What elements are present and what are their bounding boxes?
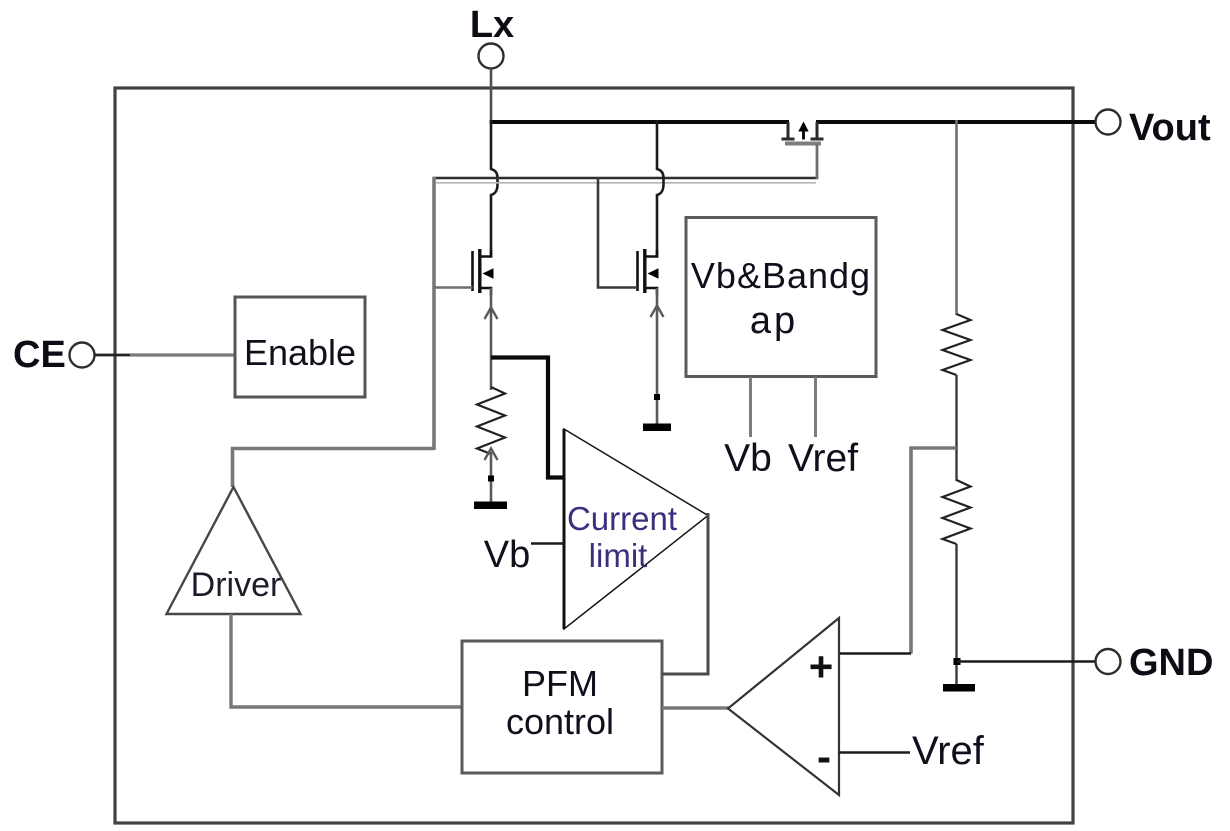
wire divider bottom lead: [955, 544, 957, 684]
block Enable: [235, 297, 365, 397]
wire comparator U2 minus input: [839, 751, 910, 753]
svg-text:ap: ap: [750, 300, 798, 342]
wire Lx pin to Vout rail: [490, 69, 493, 124]
block PFM control: [462, 641, 662, 773]
transistor M2 source stub: [645, 288, 657, 295]
junction dot at GND node: [954, 658, 961, 665]
arrow current direction on M2 source: [651, 306, 664, 318]
transistor M1 channel bar: [478, 249, 481, 293]
wire M1 gate connection: [434, 286, 473, 289]
pin Lx terminal circle: [479, 44, 504, 69]
transistor M2 drain stub: [645, 250, 657, 257]
wire gate drive horizontal net: [433, 177, 818, 180]
transistor M3 body arrow: [798, 122, 808, 140]
wire Vb to current limit comparator: [531, 542, 564, 544]
svg-text:Lx: Lx: [470, 4, 514, 46]
ground G2: [643, 424, 671, 432]
ground G3: [943, 684, 975, 692]
wire Lx vertical with hop over gate line to M1 drain: [491, 120, 498, 258]
svg-text:GND: GND: [1129, 642, 1213, 684]
wire Driver output to PFM: [231, 614, 462, 707]
block Vb&Bandgap: [686, 218, 876, 377]
transistor M1 body arrow: [483, 268, 494, 279]
wire GND node to pin: [957, 660, 1097, 662]
junction dot above ground G1: [488, 476, 494, 482]
wire feedback tap elbow: [911, 448, 957, 654]
transistor M2 body arrow: [648, 268, 659, 279]
wire CE to Enable block: [95, 354, 133, 357]
comparator U2 triangle: [728, 618, 839, 795]
wire Vout rail (thick, left of PMOS): [490, 120, 789, 124]
transistor M3 gate bar: [785, 142, 821, 146]
resistor R3: [943, 480, 971, 544]
wire Vref output lead: [814, 377, 817, 437]
junction dot above ground G2: [654, 394, 660, 400]
wire driver top elbow: [233, 449, 435, 488]
transistor M1 drain stub: [480, 250, 491, 257]
wire M2 drain vertical with hop over gate line: [657, 120, 664, 258]
wire feedback divider top lead: [955, 120, 958, 315]
pin CE terminal circle: [70, 343, 95, 368]
svg-text:control: control: [506, 701, 614, 742]
ground G1: [474, 502, 507, 510]
svg-text:-: -: [817, 733, 831, 780]
wire M2 gate connection: [598, 177, 638, 288]
transistor M1 gate bar: [471, 251, 474, 291]
svg-text:PFM: PFM: [522, 663, 598, 704]
resistor R2: [943, 314, 971, 375]
pin GND terminal circle: [1096, 649, 1121, 674]
svg-text:CE: CE: [13, 334, 66, 376]
svg-text:+: +: [809, 643, 834, 690]
svg-text:Vb: Vb: [484, 534, 530, 576]
svg-text:Enable: Enable: [244, 332, 356, 373]
svg-text:limit: limit: [589, 537, 648, 574]
transistor M3 right contact stub: [811, 122, 824, 139]
wire current limit output to PFM: [662, 513, 708, 674]
comparator U1 left edge emphasis: [563, 429, 566, 629]
wire R1 bottom lead: [490, 452, 493, 503]
svg-text:Driver: Driver: [191, 566, 282, 604]
wire Vout rail (right of PMOS to pin): [816, 120, 1096, 124]
comparator U1 Current limit triangle: [564, 429, 708, 629]
transistor M2 gate bar: [636, 251, 639, 291]
svg-text:Vout: Vout: [1129, 107, 1211, 149]
wire M2 source lead: [656, 288, 659, 425]
wire PFM to comparator U2 output: [662, 706, 729, 709]
wire gate drive ghost echo: [436, 182, 816, 184]
svg-text:Vref: Vref: [912, 729, 985, 773]
svg-text:Vb: Vb: [724, 437, 772, 480]
pin Vout terminal circle: [1096, 110, 1121, 135]
wire M3 gate to gate net: [816, 144, 819, 180]
transistor M1 source stub: [480, 288, 491, 295]
wire divider middle lead: [955, 375, 957, 481]
svg-text:Current: Current: [567, 500, 677, 537]
wire comparator plus input: [839, 652, 911, 654]
buffer Driver triangle: [167, 487, 301, 614]
wire Vb output lead: [749, 377, 752, 437]
chip boundary box: [115, 88, 1073, 823]
wire thick current-sense line to comparator: [491, 358, 564, 478]
resistor R1: [477, 387, 505, 454]
svg-text:Vref: Vref: [788, 437, 858, 480]
wire M1 source lead: [490, 288, 493, 390]
wire gate net left vertical (to driver): [432, 177, 436, 450]
arrow current direction on M1 source: [485, 308, 498, 320]
svg-text:Vb&Bandg: Vb&Bandg: [691, 255, 871, 296]
arrow current direction below R1: [485, 449, 498, 461]
transistor M2 channel bar: [643, 249, 646, 293]
transistor M3 (PMOS) left contact stub: [782, 122, 795, 139]
